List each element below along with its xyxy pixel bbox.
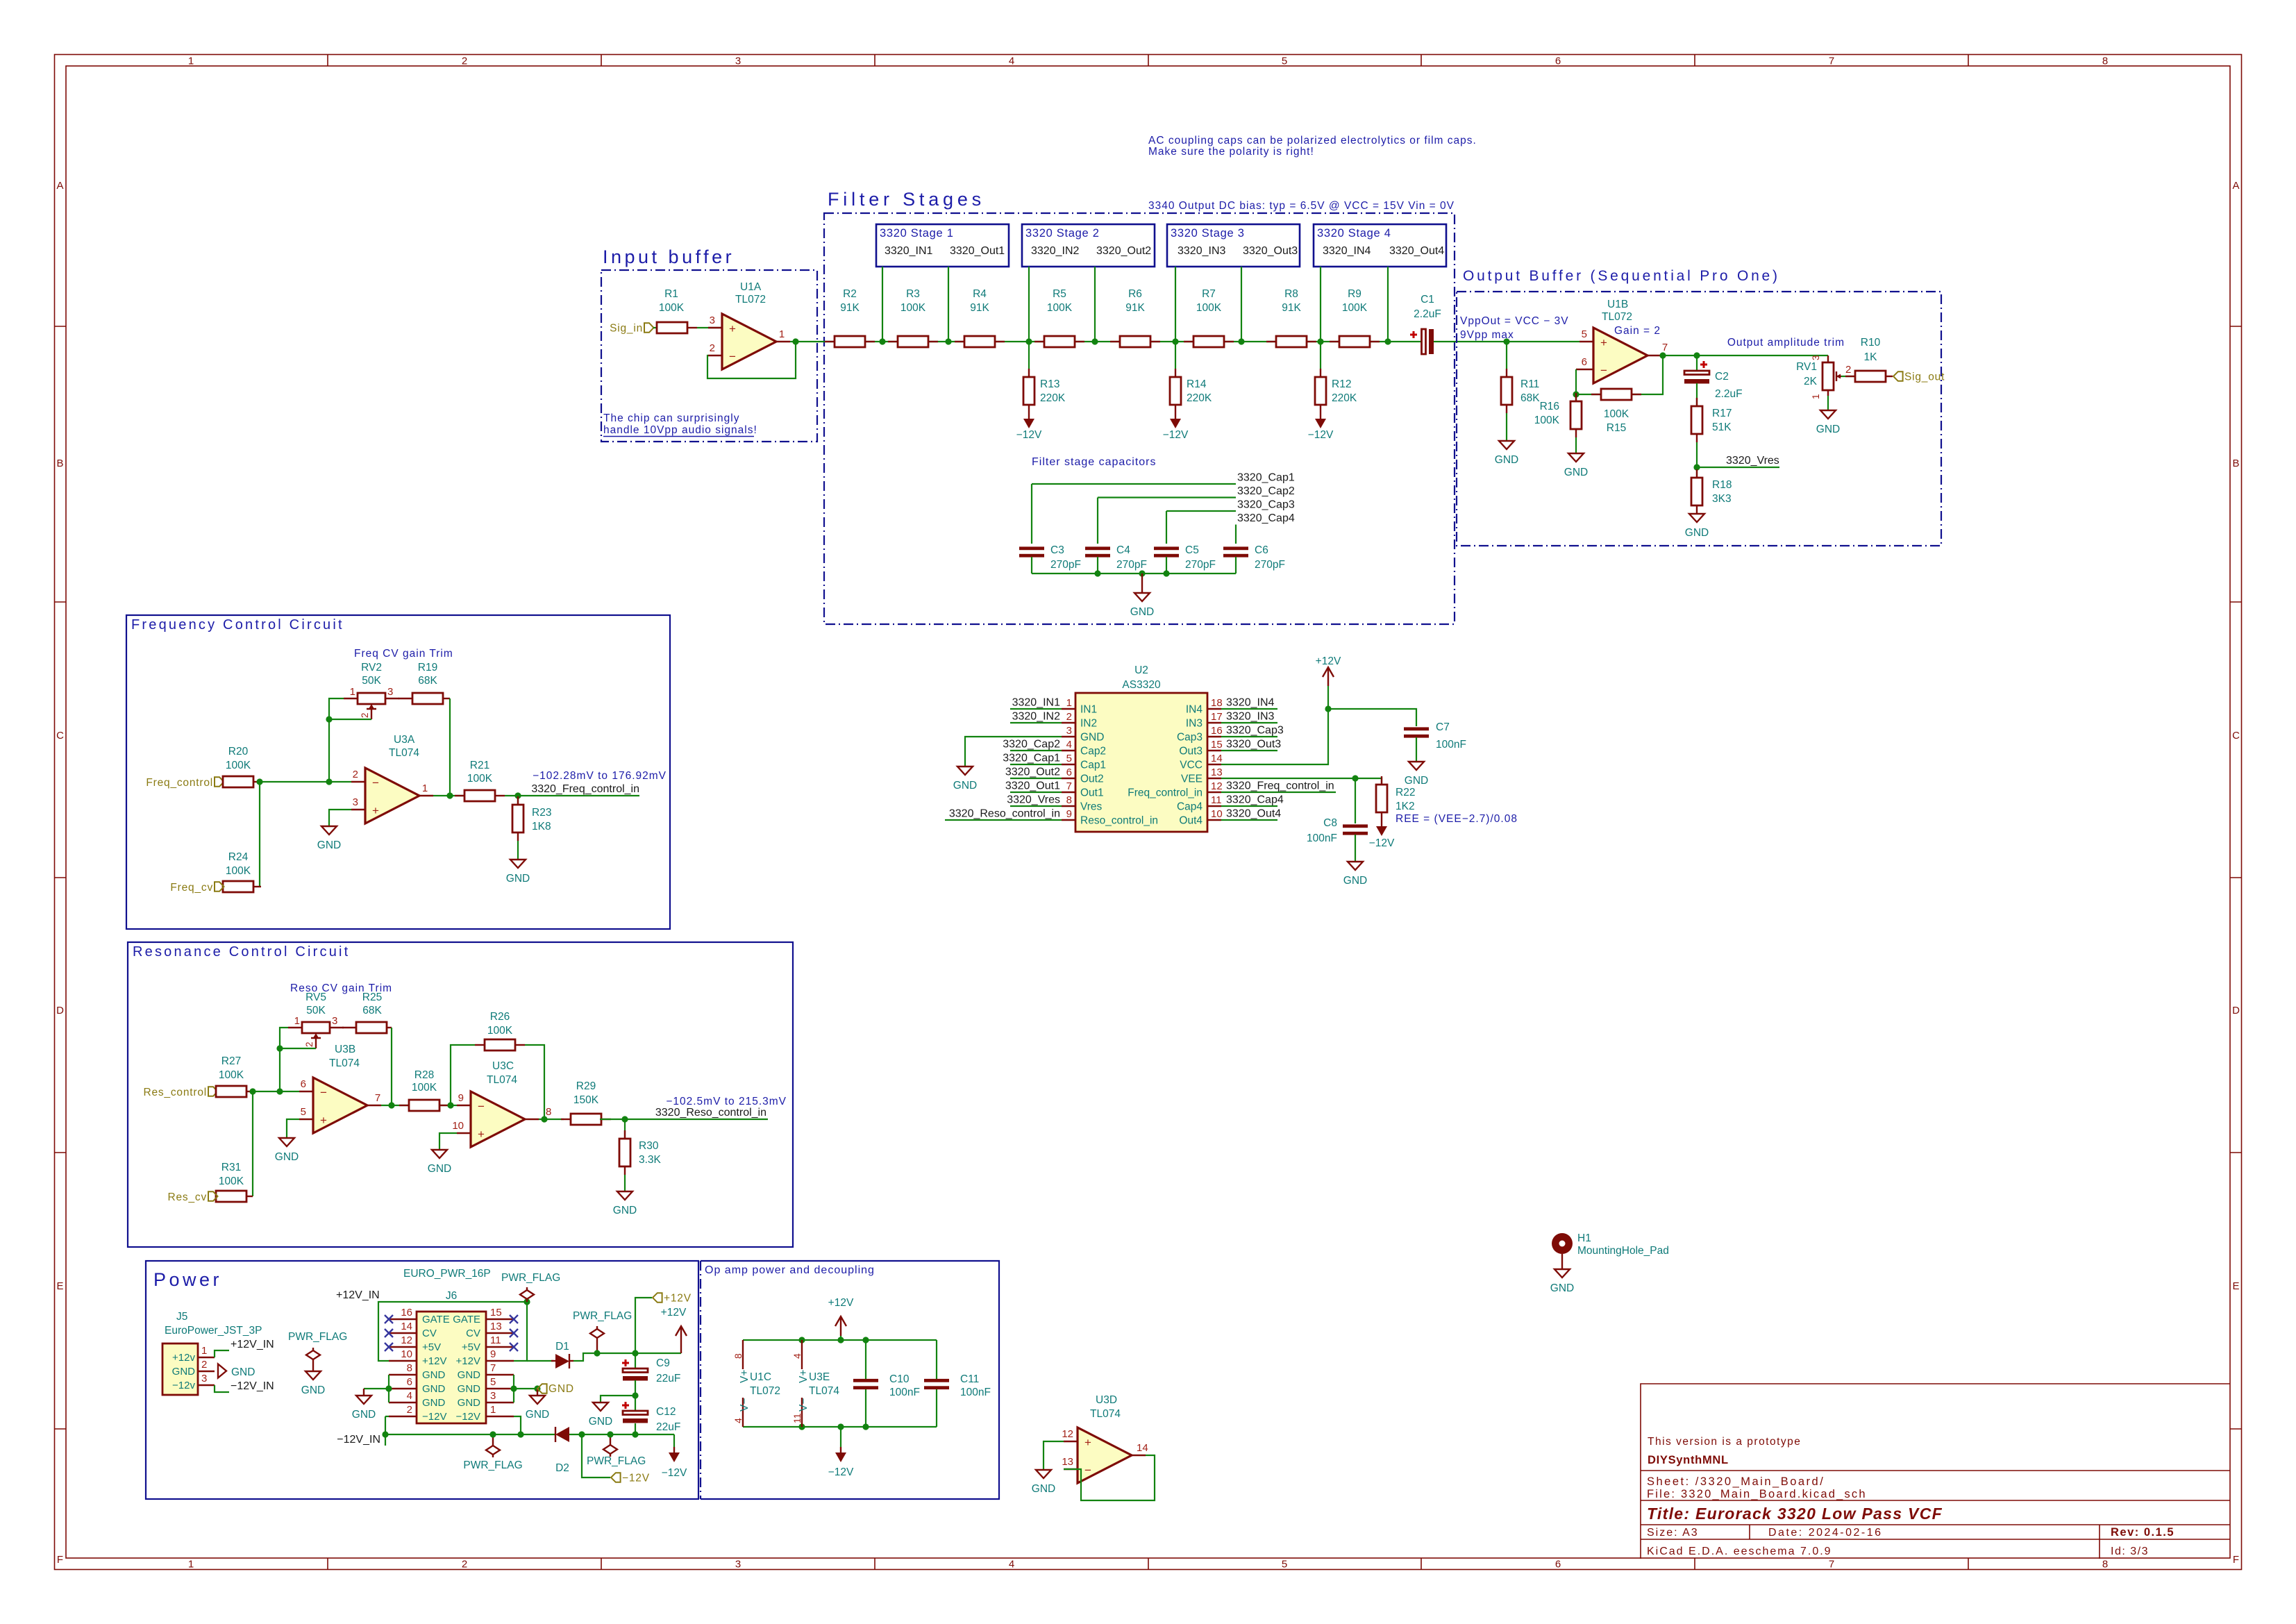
no-connect cross left: [385, 1343, 393, 1351]
capacitor C10: [853, 1379, 878, 1382]
svg-text:Id: 3/3: Id: 3/3: [2111, 1546, 2149, 1557]
node 3320_Vres junction: [1693, 464, 1700, 470]
pin 3 GND right: [486, 1402, 514, 1403]
svg-text:7: 7: [1066, 780, 1072, 792]
node mid junction: [632, 1392, 638, 1398]
svg-text:4: 4: [791, 1353, 803, 1359]
pin 16 GATE left: [389, 1319, 417, 1320]
svg-text:+: +: [729, 322, 736, 335]
pin 13 VEE: [1207, 778, 1221, 779]
svg-text:+: +: [1600, 336, 1607, 349]
svg-text:−: −: [478, 1100, 485, 1113]
pin 3 GND: [1062, 736, 1075, 737]
svg-text:GND: GND: [1816, 424, 1840, 435]
svg-text:B: B: [56, 458, 63, 469]
ground J6 right: [537, 1395, 538, 1396]
resistor R3: [888, 341, 898, 342]
svg-text:Make sure the polarity is righ: Make sure the polarity is right!: [1148, 146, 1314, 158]
resistor R8: [1266, 341, 1276, 342]
svg-text:DIYSynthMNL: DIYSynthMNL: [1648, 1454, 1729, 1466]
svg-text:9: 9: [490, 1348, 496, 1360]
svg-text:R23: R23: [532, 807, 551, 819]
svg-text:−102.5mV to 215.3mV: −102.5mV to 215.3mV: [666, 1096, 787, 1107]
capacitor C9: [635, 1353, 636, 1368]
wire + local label 3320_Out2: [1010, 778, 1062, 779]
svg-text:3320_Out1: 3320_Out1: [1005, 780, 1060, 792]
svg-text:RV2: RV2: [361, 662, 382, 673]
svg-text:B: B: [2232, 458, 2239, 469]
node R26 junction left: [447, 1102, 453, 1108]
resistor R17: [1696, 398, 1698, 406]
capacitor C8: [1343, 824, 1368, 828]
pin 10 Out4: [1207, 819, 1221, 821]
pin 11 +5V right: [486, 1346, 514, 1348]
svg-text:3320_Out2: 3320_Out2: [1005, 767, 1060, 778]
wire pin9 to D1: [527, 1360, 553, 1362]
+12V op power: [835, 1316, 846, 1336]
svg-text:3320_Vres: 3320_Vres: [1726, 455, 1779, 467]
capacitor C3: [1019, 546, 1044, 550]
svg-text:C: C: [56, 730, 64, 742]
wire U3B out to R28: [381, 1105, 457, 1106]
node Out1 junction: [945, 338, 951, 344]
wire RV1 wiper to R10: [1841, 376, 1856, 377]
svg-text:Freq_control_in: Freq_control_in: [1128, 787, 1203, 799]
svg-text:VEE: VEE: [1181, 773, 1203, 785]
resistor R1: [687, 327, 697, 328]
IC U2 AS3320: [1075, 693, 1207, 832]
resistor R18: [1696, 469, 1698, 478]
svg-text:VCC: VCC: [1180, 760, 1203, 771]
-12V power symbol: [673, 1447, 675, 1453]
section box Output Buffer: [1457, 292, 1941, 546]
svg-text:Cap2: Cap2: [1080, 746, 1106, 757]
wire R19 to output: [449, 698, 451, 796]
global label +12V: [653, 1293, 662, 1303]
svg-text:11: 11: [1211, 794, 1222, 806]
svg-text:−12V: −12V: [1016, 429, 1042, 441]
svg-text:−: −: [372, 776, 379, 789]
svg-text:100K: 100K: [900, 302, 926, 314]
wire + local label 3320_Out3: [1221, 750, 1277, 751]
wire U3A output: [433, 795, 464, 796]
svg-text:3: 3: [1066, 725, 1072, 737]
wire RV2 pin1 loop: [329, 698, 344, 782]
svg-text:GND: GND: [953, 780, 977, 792]
svg-text:150K: 150K: [573, 1094, 599, 1106]
svg-text:100K: 100K: [1604, 408, 1629, 420]
svg-text:+12V: +12V: [664, 1293, 692, 1305]
wire U3D feedback: [1064, 1455, 1155, 1500]
connector J6 EURO_PWR_16P: [417, 1312, 486, 1423]
svg-text:GND: GND: [1495, 454, 1518, 466]
svg-text:15: 15: [490, 1307, 502, 1319]
power flag PWR_FLAG 3: [486, 1446, 500, 1455]
svg-text:R10: R10: [1861, 337, 1881, 349]
node C8 junction: [1352, 775, 1358, 781]
J6 ground bracket right: [513, 1375, 514, 1403]
svg-text:−12V: −12V: [1308, 429, 1334, 441]
svg-text:91K: 91K: [840, 302, 860, 314]
svg-text:R11: R11: [1520, 378, 1539, 390]
svg-text:V+: V+: [739, 1370, 751, 1383]
resistor R31 branch: [252, 1091, 253, 1196]
svg-text:4: 4: [1009, 56, 1014, 67]
sheet 3320 Stage 4: [1314, 224, 1446, 267]
pin 8 GND left: [389, 1374, 417, 1375]
svg-text:+: +: [478, 1128, 485, 1141]
svg-text:AS3320: AS3320: [1122, 679, 1161, 691]
svg-text:100K: 100K: [219, 1175, 244, 1187]
svg-text:C5: C5: [1185, 544, 1199, 556]
wire D1 cathode: [573, 1353, 635, 1361]
svg-text:−12V: −12V: [422, 1411, 446, 1423]
svg-text:270pF: 270pF: [1185, 559, 1216, 571]
wire filter caps ground rail: [1032, 573, 1236, 574]
svg-text:−12V: −12V: [1369, 837, 1395, 849]
section box Frequency Control Circuit: [126, 615, 670, 929]
svg-text:100nF: 100nF: [1436, 739, 1466, 751]
svg-text:5: 5: [1282, 56, 1287, 67]
wire + local label 3320_Vres: [1010, 805, 1062, 807]
resistor R4: [955, 341, 964, 342]
pin 7 GND right: [486, 1374, 514, 1375]
wire + local label 3320_Cap2: [1010, 750, 1062, 751]
svg-text:GND: GND: [458, 1383, 481, 1395]
svg-text:2: 2: [462, 1559, 467, 1571]
svg-text:5: 5: [1282, 1559, 1287, 1571]
svg-text:U2: U2: [1134, 664, 1148, 676]
svg-text:Filter stage capacitors: Filter stage capacitors: [1032, 456, 1157, 468]
svg-text:Freq_cv: Freq_cv: [170, 882, 213, 894]
resistor R16: [1575, 393, 1577, 401]
svg-text:11: 11: [490, 1334, 501, 1346]
svg-text:U3C: U3C: [492, 1060, 514, 1072]
svg-text:1: 1: [201, 1345, 207, 1357]
svg-text:GND: GND: [301, 1384, 325, 1396]
svg-text:TL072: TL072: [735, 294, 766, 305]
node rail junctions: [1094, 570, 1100, 576]
svg-text:R16: R16: [1540, 401, 1559, 412]
svg-text:GND: GND: [172, 1366, 196, 1378]
svg-text:C9: C9: [656, 1357, 670, 1369]
svg-text:1: 1: [779, 328, 785, 340]
svg-text:File: 3320_Main_Board.kicad_sc: File: 3320_Main_Board.kicad_sch: [1647, 1488, 1867, 1500]
svg-text:3320_Reso_control_in: 3320_Reso_control_in: [655, 1107, 766, 1119]
svg-text:R26: R26: [490, 1011, 510, 1023]
svg-text:Output Buffer (Sequential Pro: Output Buffer (Sequential Pro One): [1463, 268, 1780, 284]
svg-text:5: 5: [301, 1106, 306, 1118]
wire C6 bottom: [1235, 557, 1237, 574]
svg-text:12: 12: [401, 1334, 412, 1346]
svg-text:2: 2: [353, 769, 358, 780]
pin 2 GND: [198, 1371, 215, 1372]
svg-text:GND: GND: [422, 1369, 446, 1381]
ground H1: [1561, 1269, 1563, 1270]
svg-text:F: F: [57, 1554, 63, 1566]
svg-text:220K: 220K: [1040, 392, 1066, 404]
wire 3320_Out4 to ladder: [1387, 267, 1389, 342]
pin 2 −12V left: [389, 1416, 417, 1417]
svg-text:3320 Stage 2: 3320 Stage 2: [1025, 227, 1100, 240]
svg-text:10: 10: [1211, 808, 1223, 820]
pin 1 −12V right: [486, 1416, 514, 1417]
svg-text:3320_Freq_control_in: 3320_Freq_control_in: [1226, 780, 1334, 792]
svg-text:100K: 100K: [226, 760, 251, 771]
op-amp U1A: [722, 314, 776, 369]
pin 3 −12v: [198, 1384, 215, 1386]
svg-text:16: 16: [1211, 725, 1223, 737]
svg-text:−12V_IN: −12V_IN: [231, 1380, 274, 1392]
svg-text:Date: 2024-02-16: Date: 2024-02-16: [1768, 1527, 1883, 1539]
svg-text:3320 Stage 3: 3320 Stage 3: [1171, 227, 1245, 240]
svg-text:100nF: 100nF: [1307, 832, 1337, 844]
node R19 junction: [446, 792, 453, 798]
wire 3320_IN2 to ladder: [1028, 267, 1030, 342]
svg-text:U3A: U3A: [394, 734, 415, 746]
resistor R10: [1845, 376, 1855, 377]
ground PWR_FLAG1: [312, 1371, 314, 1372]
no-connect cross left: [385, 1315, 393, 1323]
svg-text:3340 Output DC bias: typ = 6.5: 3340 Output DC bias: typ = 6.5V @ VCC = …: [1148, 200, 1455, 212]
global label Sig_out: [1893, 371, 1903, 381]
wire C9 to mid node: [635, 1380, 636, 1411]
resistor R19: [399, 698, 412, 699]
svg-text:1: 1: [490, 1404, 496, 1416]
wire + local label 3320_Cap1: [1010, 764, 1062, 765]
svg-text:J5: J5: [176, 1311, 187, 1323]
svg-text:1: 1: [422, 782, 428, 794]
pin 8 Vres: [1062, 805, 1075, 807]
svg-text:3320_Freq_control_in: 3320_Freq_control_in: [531, 783, 639, 795]
svg-text:+5V: +5V: [462, 1341, 480, 1353]
node -12V_IN junction: [382, 1431, 388, 1437]
svg-text:3320_Out4: 3320_Out4: [1389, 245, 1444, 257]
svg-text:5: 5: [490, 1376, 496, 1388]
svg-text:13: 13: [490, 1321, 502, 1332]
svg-text:GND: GND: [589, 1416, 612, 1428]
svg-text:4: 4: [1066, 739, 1072, 751]
capacitor C7: [1404, 727, 1429, 730]
op-amp U3D: [1078, 1428, 1132, 1483]
svg-text:8: 8: [546, 1106, 551, 1118]
wire R29 to label: [600, 1119, 768, 1120]
svg-text:R13: R13: [1040, 378, 1059, 390]
svg-text:3.3K: 3.3K: [639, 1154, 662, 1166]
wire U3B pin5 GND: [287, 1119, 299, 1138]
svg-text:91K: 91K: [970, 302, 989, 314]
wire 3320_Out2 to ladder: [1094, 267, 1096, 342]
svg-text:GND: GND: [1564, 467, 1588, 478]
svg-text:E: E: [56, 1280, 63, 1292]
svg-text:U1C: U1C: [750, 1371, 771, 1383]
wire U3C pin10 GND: [439, 1133, 457, 1150]
svg-text:R9: R9: [1348, 288, 1361, 300]
op-amp power unit U3E: [801, 1340, 803, 1369]
svg-text:E: E: [2232, 1280, 2239, 1292]
svg-text:3: 3: [201, 1373, 207, 1384]
ground R18: [1696, 513, 1698, 514]
svg-text:1: 1: [350, 686, 355, 698]
node C9 top junction: [632, 1350, 638, 1356]
svg-text:TL074: TL074: [389, 747, 419, 759]
svg-text:+12v: +12v: [172, 1352, 195, 1364]
svg-text:2: 2: [304, 1041, 315, 1047]
svg-text:3320_Cap1: 3320_Cap1: [1003, 753, 1060, 764]
svg-text:IN1: IN1: [1080, 704, 1097, 716]
wire -12V rail: [743, 1426, 937, 1428]
resistor R9: [1330, 341, 1339, 342]
svg-text:V+: V+: [798, 1370, 810, 1383]
svg-text:16: 16: [401, 1307, 412, 1319]
svg-text:1: 1: [1811, 394, 1821, 399]
svg-text:GND: GND: [458, 1397, 481, 1409]
wire 3320_Out1 to ladder: [948, 267, 949, 342]
node gnd arrow junction: [534, 1385, 540, 1391]
section box Resonance Control Circuit: [128, 942, 793, 1247]
svg-text:−: −: [320, 1086, 327, 1099]
svg-text:GND: GND: [458, 1369, 481, 1381]
resistor R14: [1175, 369, 1176, 377]
wire C8: [1355, 778, 1356, 823]
svg-text:3320_Out4: 3320_Out4: [1226, 808, 1281, 820]
wire J6 pin1 to rail: [514, 1416, 521, 1434]
svg-text:GND: GND: [275, 1151, 299, 1163]
power flag PWR_FLAG 2: [590, 1329, 604, 1338]
svg-text:U3B: U3B: [335, 1044, 355, 1055]
pin 13 CV right: [486, 1332, 514, 1334]
svg-text:MountingHole_Pad: MountingHole_Pad: [1577, 1245, 1669, 1257]
svg-text:3320_Out2: 3320_Out2: [1096, 245, 1151, 257]
pin 4 Cap2: [1062, 750, 1075, 751]
diode D2: [555, 1427, 569, 1442]
wire R20 to U3A pin2: [261, 781, 351, 782]
node flag4 junction: [607, 1431, 613, 1437]
section box Filter Stages: [824, 213, 1455, 624]
svg-text:100K: 100K: [1342, 302, 1368, 314]
+12V power U2: [1323, 667, 1334, 686]
op-amp U3A pins: [351, 781, 365, 782]
svg-text:50K: 50K: [362, 675, 381, 687]
wire to R11: [1506, 342, 1507, 369]
svg-text:1: 1: [188, 56, 194, 67]
resistor R20: [253, 781, 261, 782]
svg-text:+12V: +12V: [422, 1355, 446, 1367]
svg-text:R12: R12: [1332, 378, 1351, 390]
wire + local label 3320_IN2: [1010, 722, 1062, 723]
node IN3 junction: [1172, 338, 1178, 344]
svg-text:GATE: GATE: [453, 1314, 480, 1325]
resistor R23: [517, 796, 519, 805]
svg-text:R24: R24: [228, 851, 249, 863]
wire VEE net: [1221, 778, 1382, 785]
resistor R11: [1506, 369, 1507, 377]
wire R23 to GND: [517, 841, 519, 860]
svg-text:3320 Stage 1: 3320 Stage 1: [880, 227, 954, 240]
op-amp U3B pins: [299, 1091, 313, 1092]
capacitor C11: [936, 1340, 937, 1380]
wire J5 pin1 to +12V_IN: [215, 1350, 229, 1357]
svg-text:C12: C12: [656, 1406, 676, 1418]
svg-text:12: 12: [1062, 1428, 1073, 1440]
pin 6 GND left: [389, 1388, 417, 1389]
node C2 junction: [1693, 352, 1700, 358]
op-amp U3C pins: [457, 1105, 471, 1106]
svg-text:R2: R2: [843, 288, 857, 300]
svg-text:68K: 68K: [362, 1005, 382, 1016]
svg-text:C1: C1: [1421, 294, 1434, 305]
svg-text:IN3: IN3: [1186, 718, 1203, 730]
svg-text:GND: GND: [1080, 732, 1104, 744]
wire 3320_Cap1 net: [1031, 484, 1032, 544]
svg-text:10: 10: [401, 1348, 412, 1360]
wire R12 to -12V: [1320, 342, 1321, 369]
wire 3320_Cap4 net: [1235, 525, 1237, 544]
svg-text:3: 3: [735, 1559, 741, 1571]
svg-text:+12V: +12V: [1316, 655, 1341, 667]
power symbol GND J5 pin2: [218, 1364, 226, 1378]
node R30 junction: [621, 1116, 628, 1122]
svg-text:Res_control: Res_control: [143, 1087, 207, 1098]
node RV2 junction: [326, 778, 332, 785]
node Out3 junction: [1238, 338, 1244, 344]
node R11 junction: [1503, 338, 1509, 344]
wire -12V rail: [385, 1434, 555, 1435]
svg-text:270pF: 270pF: [1255, 559, 1285, 571]
wire + local label 3320_IN1: [1010, 708, 1062, 710]
wire 3320_IN3 to ladder: [1175, 267, 1176, 342]
resistor R24 branch: [259, 782, 260, 887]
svg-text:R7: R7: [1202, 288, 1216, 300]
wire 3320_Vres stub: [1697, 467, 1779, 468]
wire RV5 pin1 loop: [280, 1028, 288, 1091]
pin 9 Reso_control_in: [1062, 819, 1075, 821]
svg-text:100K: 100K: [219, 1069, 244, 1081]
svg-text:GND: GND: [317, 839, 341, 851]
node R24 junction: [256, 778, 262, 785]
wire C3 bottom: [1031, 557, 1032, 574]
svg-text:C11: C11: [960, 1373, 979, 1385]
svg-text:V−: V−: [739, 1398, 751, 1412]
svg-text:−12V: −12V: [456, 1411, 480, 1423]
title block: [1641, 1384, 2230, 1559]
svg-text:3320_Cap4: 3320_Cap4: [1237, 512, 1295, 524]
svg-text:R4: R4: [973, 288, 987, 300]
svg-text:3320_Vres: 3320_Vres: [1007, 794, 1060, 806]
node flag3 junction: [489, 1431, 496, 1437]
wire + local label 3320_IN4: [1221, 708, 1277, 710]
wire R14 to -12V: [1175, 342, 1176, 369]
svg-text:8: 8: [407, 1362, 412, 1374]
wire + local label 3320_Cap3: [1221, 736, 1277, 737]
svg-text:C3: C3: [1050, 544, 1064, 556]
svg-text:R20: R20: [228, 746, 249, 757]
svg-text:3K3: 3K3: [1712, 493, 1732, 505]
wire R13 to -12V: [1028, 342, 1030, 369]
capacitor C4: [1085, 546, 1110, 550]
-12V power arrow right: [673, 1434, 675, 1447]
svg-text:2: 2: [1066, 711, 1072, 723]
node IN1 junction: [879, 338, 885, 344]
svg-text:3320_IN2: 3320_IN2: [1031, 245, 1079, 257]
wire + local label 3320_IN3: [1221, 722, 1277, 723]
wire U2 pin3 GND: [965, 737, 1062, 767]
svg-text:PWR_FLAG: PWR_FLAG: [573, 1310, 632, 1322]
svg-text:R14: R14: [1187, 378, 1207, 390]
potentiometer RV1: [1827, 355, 1829, 362]
op-amp U3A: [365, 768, 419, 823]
ground U2: [964, 766, 966, 767]
